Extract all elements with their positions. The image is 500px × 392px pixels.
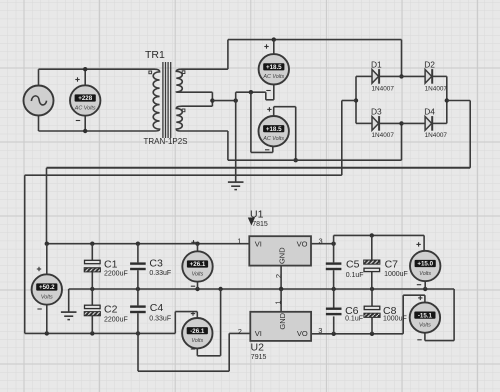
svg-text:VI: VI [255, 329, 262, 338]
svg-text:Volts: Volts [419, 271, 431, 277]
svg-text:C1: C1 [104, 258, 118, 270]
svg-text:VO: VO [297, 239, 308, 248]
svg-text:TR1: TR1 [145, 49, 165, 61]
svg-text:D4: D4 [424, 106, 435, 116]
svg-text:1: 1 [237, 237, 241, 246]
svg-text:AC Volts: AC Volts [262, 74, 284, 80]
svg-text:+228: +228 [78, 95, 92, 102]
svg-text:TRAN-1P2S: TRAN-1P2S [144, 137, 188, 146]
svg-text:2: 2 [274, 274, 283, 278]
svg-text:2: 2 [238, 327, 242, 336]
svg-text:+26.1: +26.1 [190, 261, 206, 268]
svg-text:2200uF: 2200uF [104, 271, 128, 278]
svg-text:1N4007: 1N4007 [425, 85, 448, 92]
svg-text:D1: D1 [371, 59, 382, 69]
svg-text:Volts: Volts [191, 338, 203, 344]
svg-text:+18.5: +18.5 [266, 126, 282, 133]
svg-text:7915: 7915 [251, 354, 267, 361]
svg-text:1000uF: 1000uF [384, 271, 408, 278]
svg-text:GND: GND [278, 247, 287, 264]
svg-text:1N4007: 1N4007 [372, 85, 395, 92]
svg-text:Volts: Volts [419, 323, 431, 329]
svg-text:C5: C5 [346, 259, 360, 271]
svg-text:AC Volts: AC Volts [74, 105, 96, 111]
svg-text:0.33uF: 0.33uF [149, 316, 171, 323]
svg-text:-15.1: -15.1 [418, 312, 433, 319]
svg-text:0.1uF: 0.1uF [345, 316, 363, 323]
svg-text:2200uF: 2200uF [104, 316, 128, 323]
svg-text:VO: VO [297, 329, 308, 338]
svg-text:+50.2: +50.2 [39, 284, 55, 291]
svg-text:1: 1 [274, 300, 283, 304]
svg-text:3: 3 [319, 236, 323, 245]
svg-text:+15.0: +15.0 [417, 261, 433, 268]
svg-text:Volts: Volts [192, 271, 204, 277]
svg-text:1N4007: 1N4007 [425, 132, 448, 139]
svg-text:C3: C3 [149, 258, 163, 270]
svg-text:AC Volts: AC Volts [262, 136, 284, 142]
svg-text:U2: U2 [251, 342, 265, 354]
svg-text:C2: C2 [104, 303, 118, 315]
svg-text:-26.1: -26.1 [190, 328, 205, 335]
svg-text:VI: VI [255, 239, 262, 248]
svg-text:C4: C4 [150, 302, 164, 314]
svg-text:C7: C7 [385, 259, 399, 271]
svg-text:D2: D2 [424, 59, 435, 69]
svg-text:1000uF: 1000uF [383, 316, 407, 323]
svg-text:0.33uF: 0.33uF [149, 270, 171, 277]
svg-text:GND: GND [278, 312, 287, 329]
svg-text:7815: 7815 [252, 221, 268, 228]
svg-text:1N4007: 1N4007 [372, 132, 395, 139]
svg-text:0.1uF: 0.1uF [346, 272, 364, 279]
svg-text:D3: D3 [371, 106, 382, 116]
svg-text:Volts: Volts [41, 294, 53, 300]
svg-text:3: 3 [318, 326, 322, 335]
svg-text:+18.5: +18.5 [266, 64, 282, 71]
